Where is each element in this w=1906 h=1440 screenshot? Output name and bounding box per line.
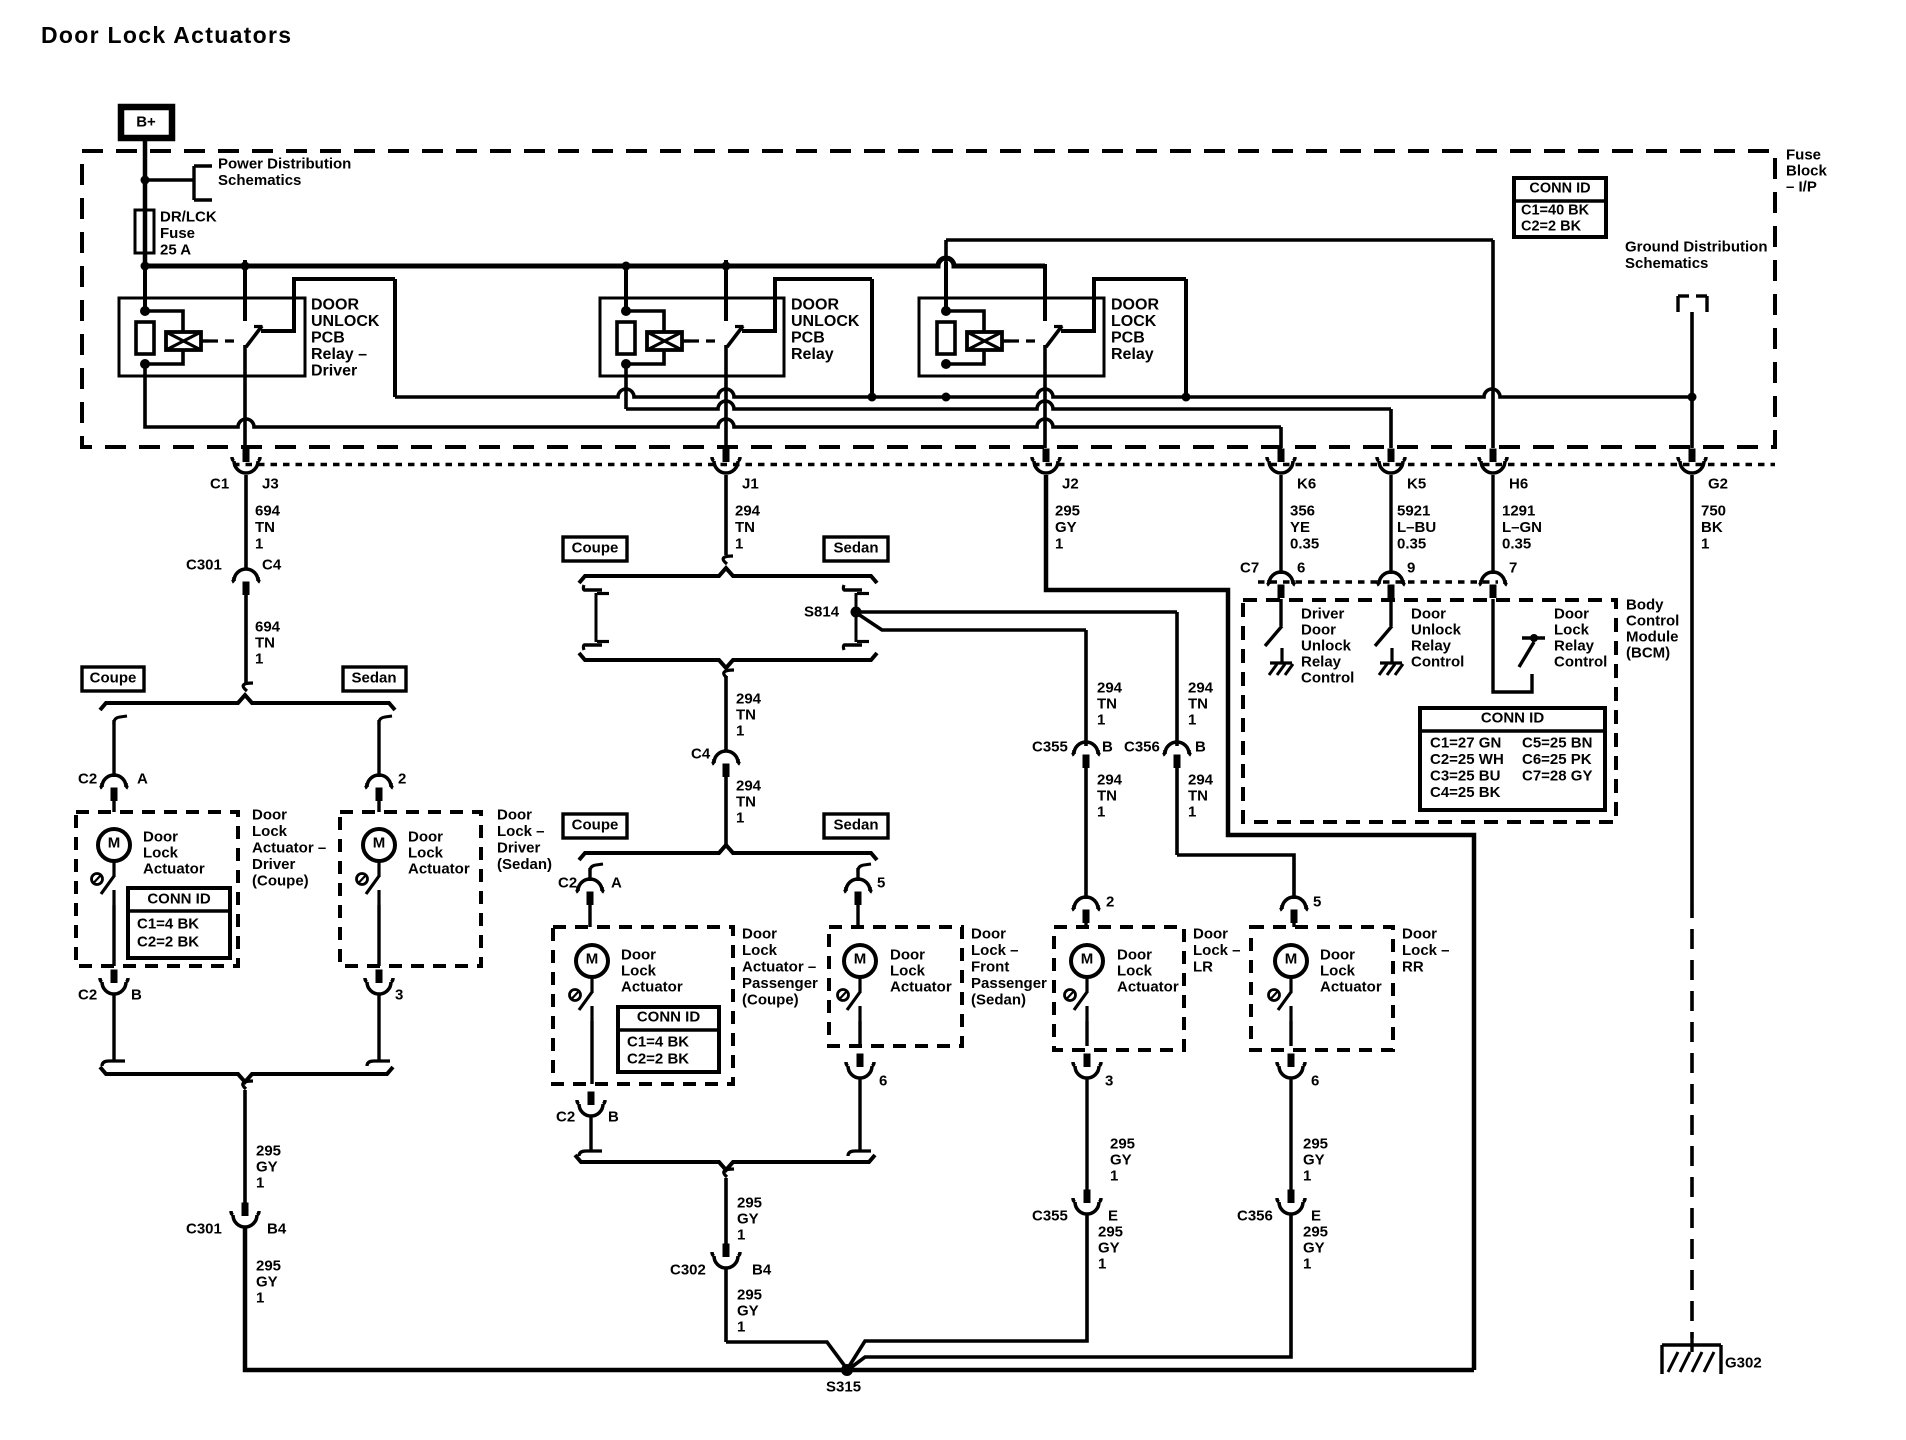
svg-text:1: 1 xyxy=(736,810,744,827)
svg-text:TN: TN xyxy=(1188,788,1208,805)
svg-text:Driver: Driver xyxy=(497,840,541,857)
svg-text:Lock: Lock xyxy=(742,942,778,959)
svg-text:Unlock: Unlock xyxy=(1301,638,1352,655)
svg-text:Lock: Lock xyxy=(621,963,657,980)
svg-text:RR: RR xyxy=(1402,959,1424,976)
svg-text:C2: C2 xyxy=(558,875,577,892)
svg-text:– I/P: – I/P xyxy=(1786,179,1817,196)
svg-text:A: A xyxy=(611,875,622,892)
svg-text:H6: H6 xyxy=(1509,476,1528,493)
svg-text:Front: Front xyxy=(971,959,1009,976)
svg-text:C1=40 BK: C1=40 BK xyxy=(1521,202,1590,218)
svg-text:Lock: Lock xyxy=(890,963,926,980)
svg-text:Ground Distribution: Ground Distribution xyxy=(1625,239,1767,256)
svg-text:Actuator: Actuator xyxy=(1117,979,1179,996)
svg-text:TN: TN xyxy=(1097,696,1117,713)
svg-text:C2=25 WH: C2=25 WH xyxy=(1430,751,1504,768)
svg-text:Block: Block xyxy=(1786,163,1828,180)
svg-text:Door: Door xyxy=(1411,606,1446,623)
svg-text:Door: Door xyxy=(252,807,287,824)
svg-text:1: 1 xyxy=(1097,712,1105,729)
svg-text:Actuator: Actuator xyxy=(408,861,470,878)
svg-text:1: 1 xyxy=(1303,1256,1311,1273)
svg-text:1: 1 xyxy=(735,536,743,553)
svg-text:C302: C302 xyxy=(670,1262,706,1279)
svg-text:M: M xyxy=(108,835,121,852)
svg-text:1: 1 xyxy=(1110,1168,1118,1185)
svg-text:YE: YE xyxy=(1290,519,1310,536)
svg-text:Actuator –: Actuator – xyxy=(742,959,816,976)
svg-text:9: 9 xyxy=(1407,560,1415,577)
svg-text:Control: Control xyxy=(1301,670,1354,687)
svg-text:C301: C301 xyxy=(186,557,222,574)
svg-text:Passenger: Passenger xyxy=(971,975,1047,992)
svg-text:295: 295 xyxy=(256,1258,281,1275)
svg-text:Sedan: Sedan xyxy=(833,540,878,557)
svg-text:1: 1 xyxy=(256,1175,264,1192)
svg-text:Lock: Lock xyxy=(408,845,444,862)
svg-text:Schematics: Schematics xyxy=(218,172,301,189)
svg-text:TN: TN xyxy=(736,794,756,811)
svg-text:C2: C2 xyxy=(78,771,97,788)
svg-text:Unlock: Unlock xyxy=(1411,622,1462,639)
svg-text:(Coupe): (Coupe) xyxy=(742,992,799,1009)
svg-text:TN: TN xyxy=(1097,788,1117,805)
svg-text:2: 2 xyxy=(1106,894,1114,911)
svg-text:Door: Door xyxy=(1402,926,1437,943)
svg-text:TN: TN xyxy=(255,519,275,536)
svg-text:5: 5 xyxy=(877,875,885,892)
svg-text:Door: Door xyxy=(1301,622,1336,639)
svg-text:CONN ID: CONN ID xyxy=(637,1009,701,1026)
svg-text:1: 1 xyxy=(1188,804,1196,821)
svg-text:B: B xyxy=(1195,739,1206,756)
svg-text:294: 294 xyxy=(1188,680,1214,697)
svg-text:B: B xyxy=(131,987,142,1004)
svg-text:294: 294 xyxy=(1188,772,1214,789)
svg-text:Coupe: Coupe xyxy=(572,817,619,834)
svg-text:TN: TN xyxy=(1188,696,1208,713)
svg-text:C356: C356 xyxy=(1124,739,1160,756)
svg-text:C4=25 BK: C4=25 BK xyxy=(1430,784,1501,801)
svg-text:Schematics: Schematics xyxy=(1625,255,1708,272)
svg-text:M: M xyxy=(1285,951,1298,968)
svg-text:Power Distribution: Power Distribution xyxy=(218,156,351,173)
svg-text:1: 1 xyxy=(1097,804,1105,821)
svg-text:1: 1 xyxy=(737,1319,745,1336)
svg-text:Lock: Lock xyxy=(1554,622,1590,639)
svg-text:Actuator –: Actuator – xyxy=(252,840,326,857)
svg-text:GY: GY xyxy=(737,1303,759,1320)
svg-text:Lock: Lock xyxy=(1117,963,1153,980)
svg-text:GY: GY xyxy=(1110,1152,1132,1169)
svg-text:C2=2 BK: C2=2 BK xyxy=(627,1051,689,1068)
svg-text:1291: 1291 xyxy=(1502,503,1535,520)
svg-text:25 A: 25 A xyxy=(160,242,191,259)
svg-text:CONN ID: CONN ID xyxy=(147,891,211,908)
svg-text:GY: GY xyxy=(1055,519,1077,536)
svg-text:B: B xyxy=(608,1109,619,1126)
svg-text:1: 1 xyxy=(1188,712,1196,729)
svg-text:DOOR: DOOR xyxy=(1111,297,1159,314)
svg-text:Passenger: Passenger xyxy=(742,975,818,992)
svg-text:DR/LCK: DR/LCK xyxy=(160,209,217,226)
svg-text:B4: B4 xyxy=(267,1221,287,1238)
svg-text:356: 356 xyxy=(1290,503,1315,520)
svg-text:C5=25 BN: C5=25 BN xyxy=(1522,735,1592,752)
svg-text:Lock –: Lock – xyxy=(1193,942,1241,959)
svg-text:C1: C1 xyxy=(210,476,229,493)
svg-text:(BCM): (BCM) xyxy=(1626,645,1670,662)
svg-text:GY: GY xyxy=(1098,1240,1120,1257)
svg-text:B+: B+ xyxy=(136,114,156,131)
svg-text:GY: GY xyxy=(1303,1240,1325,1257)
svg-text:C301: C301 xyxy=(186,1221,222,1238)
svg-text:DOOR: DOOR xyxy=(791,297,839,314)
svg-text:Lock: Lock xyxy=(143,845,179,862)
svg-text:Actuator: Actuator xyxy=(1320,979,1382,996)
svg-text:1: 1 xyxy=(737,1227,745,1244)
svg-text:C4: C4 xyxy=(262,557,282,574)
svg-text:TN: TN xyxy=(255,635,275,652)
svg-text:Door: Door xyxy=(971,926,1006,943)
svg-text:Control: Control xyxy=(1554,654,1607,671)
svg-text:Fuse: Fuse xyxy=(1786,147,1821,164)
svg-text:(Sedan): (Sedan) xyxy=(971,992,1026,1009)
svg-text:Driver: Driver xyxy=(311,363,357,380)
svg-text:Door: Door xyxy=(497,807,532,824)
svg-text:Coupe: Coupe xyxy=(572,540,619,557)
svg-text:5921: 5921 xyxy=(1397,503,1430,520)
svg-text:Lock –: Lock – xyxy=(1402,942,1450,959)
svg-text:TN: TN xyxy=(736,707,756,724)
svg-text:0.35: 0.35 xyxy=(1502,536,1531,553)
svg-text:J1: J1 xyxy=(742,476,759,493)
svg-text:1: 1 xyxy=(1055,536,1063,553)
svg-text:UNLOCK: UNLOCK xyxy=(311,313,380,330)
svg-text:294: 294 xyxy=(735,503,761,520)
svg-text:Lock: Lock xyxy=(1320,963,1356,980)
svg-text:6: 6 xyxy=(879,1073,887,1090)
svg-text:3: 3 xyxy=(1105,1073,1113,1090)
svg-text:C3=25 BU: C3=25 BU xyxy=(1430,768,1500,785)
svg-text:694: 694 xyxy=(255,503,281,520)
svg-text:295: 295 xyxy=(1098,1224,1123,1241)
svg-text:BK: BK xyxy=(1701,519,1723,536)
svg-text:A: A xyxy=(137,771,148,788)
svg-text:1: 1 xyxy=(255,536,263,553)
svg-text:DOOR: DOOR xyxy=(311,297,359,314)
svg-text:S814: S814 xyxy=(804,604,840,621)
svg-text:3: 3 xyxy=(395,987,403,1004)
svg-text:C2: C2 xyxy=(78,987,97,1004)
svg-text:GY: GY xyxy=(256,1159,278,1176)
svg-text:S315: S315 xyxy=(826,1379,861,1396)
svg-text:1: 1 xyxy=(1098,1256,1106,1273)
svg-text:294: 294 xyxy=(736,691,762,708)
svg-text:Relay: Relay xyxy=(791,346,834,363)
svg-text:M: M xyxy=(373,835,386,852)
svg-text:C6=25 PK: C6=25 PK xyxy=(1522,751,1592,768)
svg-text:Relay: Relay xyxy=(1411,638,1452,655)
svg-text:6: 6 xyxy=(1297,560,1305,577)
svg-text:Door: Door xyxy=(1193,926,1228,943)
svg-text:CONN ID: CONN ID xyxy=(1529,180,1590,196)
svg-text:GY: GY xyxy=(1303,1152,1325,1169)
svg-text:C1=4 BK: C1=4 BK xyxy=(137,916,199,933)
svg-text:Control: Control xyxy=(1626,613,1679,630)
svg-text:694: 694 xyxy=(255,619,281,636)
svg-text:Lock –: Lock – xyxy=(971,942,1019,959)
svg-text:1: 1 xyxy=(1701,536,1709,553)
svg-text:1: 1 xyxy=(1303,1168,1311,1185)
svg-text:Relay: Relay xyxy=(1111,346,1154,363)
svg-text:C1=4 BK: C1=4 BK xyxy=(627,1034,689,1051)
svg-text:1: 1 xyxy=(256,1290,264,1307)
svg-text:1: 1 xyxy=(255,651,263,668)
svg-text:Fuse: Fuse xyxy=(160,225,195,242)
svg-text:C7: C7 xyxy=(1240,560,1259,577)
svg-text:B: B xyxy=(1102,739,1113,756)
svg-text:Relay: Relay xyxy=(1554,638,1595,655)
svg-text:C356: C356 xyxy=(1237,1208,1273,1225)
svg-text:GY: GY xyxy=(737,1211,759,1228)
svg-text:Door: Door xyxy=(890,947,925,964)
svg-text:PCB: PCB xyxy=(791,330,825,347)
svg-text:M: M xyxy=(586,951,599,968)
svg-text:Lock: Lock xyxy=(252,823,288,840)
svg-text:E: E xyxy=(1311,1208,1321,1225)
svg-text:295: 295 xyxy=(256,1143,281,1160)
svg-text:C355: C355 xyxy=(1032,739,1068,756)
svg-text:LOCK: LOCK xyxy=(1111,313,1157,330)
svg-text:Sedan: Sedan xyxy=(833,817,878,834)
svg-text:0.35: 0.35 xyxy=(1290,536,1319,553)
svg-text:Door: Door xyxy=(408,829,443,846)
svg-text:6: 6 xyxy=(1311,1073,1319,1090)
svg-text:294: 294 xyxy=(1097,680,1123,697)
svg-text:Control: Control xyxy=(1411,654,1464,671)
svg-text:K5: K5 xyxy=(1407,476,1426,493)
svg-text:295: 295 xyxy=(1303,1136,1328,1153)
svg-text:C7=28 GY: C7=28 GY xyxy=(1522,768,1592,785)
svg-text:C2=2 BK: C2=2 BK xyxy=(137,934,199,951)
svg-text:C2=2 BK: C2=2 BK xyxy=(1521,218,1582,234)
svg-text:CONN ID: CONN ID xyxy=(1481,710,1545,727)
svg-text:TN: TN xyxy=(735,519,755,536)
svg-text:295: 295 xyxy=(737,1287,762,1304)
svg-text:M: M xyxy=(854,951,867,968)
svg-text:Actuator: Actuator xyxy=(143,861,205,878)
svg-text:L–GN: L–GN xyxy=(1502,519,1542,536)
svg-text:B4: B4 xyxy=(752,1262,772,1279)
svg-text:Actuator: Actuator xyxy=(890,979,952,996)
svg-text:J3: J3 xyxy=(262,476,279,493)
svg-text:J2: J2 xyxy=(1062,476,1079,493)
svg-text:750: 750 xyxy=(1701,503,1726,520)
svg-text:7: 7 xyxy=(1509,560,1517,577)
svg-text:Relay: Relay xyxy=(1301,654,1342,671)
svg-text:(Sedan): (Sedan) xyxy=(497,856,552,873)
svg-text:Door: Door xyxy=(1554,606,1589,623)
svg-text:Door: Door xyxy=(621,947,656,964)
svg-text:Door: Door xyxy=(742,926,777,943)
svg-text:GY: GY xyxy=(256,1274,278,1291)
svg-text:UNLOCK: UNLOCK xyxy=(791,313,860,330)
svg-text:LR: LR xyxy=(1193,959,1213,976)
svg-text:Module: Module xyxy=(1626,629,1679,646)
svg-text:(Coupe): (Coupe) xyxy=(252,873,309,890)
svg-text:Body: Body xyxy=(1626,597,1664,614)
svg-text:C2: C2 xyxy=(556,1109,575,1126)
svg-text:L–BU: L–BU xyxy=(1397,519,1436,536)
svg-text:C1=27 GN: C1=27 GN xyxy=(1430,735,1501,752)
svg-text:295: 295 xyxy=(737,1195,762,1212)
svg-text:C4: C4 xyxy=(691,746,711,763)
svg-text:Door: Door xyxy=(1320,947,1355,964)
svg-text:K6: K6 xyxy=(1297,476,1316,493)
svg-text:Coupe: Coupe xyxy=(90,670,137,687)
svg-text:G2: G2 xyxy=(1708,476,1728,493)
svg-text:Sedan: Sedan xyxy=(351,670,396,687)
svg-text:PCB: PCB xyxy=(1111,330,1145,347)
svg-text:294: 294 xyxy=(736,778,762,795)
svg-text:0.35: 0.35 xyxy=(1397,536,1426,553)
svg-text:295: 295 xyxy=(1055,503,1080,520)
svg-text:E: E xyxy=(1108,1208,1118,1225)
svg-text:Actuator: Actuator xyxy=(621,979,683,996)
svg-text:295: 295 xyxy=(1110,1136,1135,1153)
svg-text:Driver: Driver xyxy=(252,856,296,873)
svg-text:Relay –: Relay – xyxy=(311,346,367,363)
svg-text:Lock –: Lock – xyxy=(497,823,545,840)
svg-text:1: 1 xyxy=(736,723,744,740)
svg-text:Driver: Driver xyxy=(1301,606,1345,623)
svg-text:2: 2 xyxy=(398,771,406,788)
svg-text:M: M xyxy=(1081,951,1094,968)
svg-text:PCB: PCB xyxy=(311,330,345,347)
svg-text:5: 5 xyxy=(1313,894,1321,911)
svg-text:G302: G302 xyxy=(1725,1355,1762,1372)
svg-text:Door Lock Actuators: Door Lock Actuators xyxy=(41,22,292,48)
svg-text:295: 295 xyxy=(1303,1224,1328,1241)
svg-text:Door: Door xyxy=(143,829,178,846)
svg-text:Door: Door xyxy=(1117,947,1152,964)
svg-text:294: 294 xyxy=(1097,772,1123,789)
svg-text:C355: C355 xyxy=(1032,1208,1068,1225)
